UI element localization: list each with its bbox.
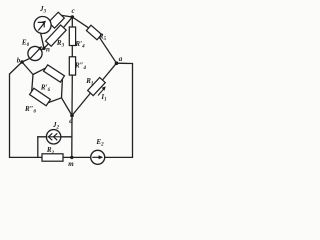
wire n to R3: [44, 44, 48, 49]
svg-text:E0: E0: [21, 39, 30, 49]
wire bottom R2 to m: [62, 156, 72, 158]
svg-text:R″6: R″6: [24, 105, 37, 115]
svg-text:c: c: [71, 7, 74, 15]
source E2: [91, 150, 105, 164]
svg-text:n: n: [46, 46, 50, 54]
node a: [115, 61, 119, 65]
wire left side: [9, 74, 11, 157]
wire F to R'6: [33, 68, 46, 74]
svg-text:I1: I1: [100, 93, 106, 103]
wire m to E2: [72, 156, 91, 158]
resistor R2: [42, 154, 63, 161]
resistor R'4: [69, 27, 75, 46]
node n: [42, 47, 45, 50]
resistor R3: [46, 25, 67, 46]
resistor R"6: [30, 88, 51, 105]
svg-text:E2: E2: [95, 138, 104, 148]
meter J2: [46, 130, 60, 144]
wire b to E0: [22, 58, 30, 62]
wire J2 branch left vertical: [37, 137, 39, 158]
wire n to J3 circle: [41, 33, 45, 49]
wire R3 to c: [64, 17, 73, 27]
svg-text:R′6: R′6: [40, 84, 51, 94]
wire R"6 to join V: [48, 98, 61, 103]
source E0: [28, 46, 42, 60]
wire c to R5: [72, 17, 88, 28]
wire J3 circle to series resistor: [50, 24, 52, 26]
wire J2 branch horizontal: [38, 136, 72, 138]
node c: [71, 15, 75, 19]
wire right side: [132, 64, 134, 158]
resistor R'6: [44, 65, 65, 82]
wire a to right side: [117, 62, 133, 64]
wire c down to R'4: [71, 17, 73, 27]
meter J3: [34, 17, 51, 34]
svg-text:R3: R3: [56, 39, 65, 49]
wire E0 to n: [42, 48, 45, 50]
wire R1 to d: [72, 93, 91, 116]
wire E2 to right corner: [105, 156, 133, 158]
svg-text:R1: R1: [85, 77, 93, 87]
wire J3 resistor to c: [62, 15, 73, 17]
current arrow I1: [98, 86, 106, 95]
wire R'6 to join V: [61, 79, 64, 98]
wire R'4 to R"4: [71, 46, 73, 58]
wire a to R1: [103, 63, 117, 80]
resistor R5: [86, 25, 101, 39]
svg-text:J3: J3: [39, 5, 47, 15]
wire bottom left: [10, 156, 44, 158]
node d: [70, 114, 74, 118]
node m: [70, 156, 73, 159]
wire R5 to a: [99, 37, 116, 63]
svg-text:a: a: [119, 55, 123, 63]
resistor in series with J3: [49, 12, 65, 28]
wire b to left corner: [10, 62, 23, 74]
wire b to fork F: [22, 62, 33, 75]
svg-text:b: b: [17, 57, 21, 65]
svg-text:R′4: R′4: [74, 40, 85, 50]
wire d to m: [71, 116, 73, 158]
wire join V to d: [62, 98, 73, 116]
wire R"4 to d: [71, 75, 73, 116]
svg-text:m: m: [68, 160, 74, 168]
resistor R"4: [69, 57, 75, 75]
node b: [20, 60, 24, 64]
svg-text:d: d: [69, 117, 73, 125]
resistor R1: [88, 77, 106, 95]
wire F to R"6: [32, 75, 33, 92]
